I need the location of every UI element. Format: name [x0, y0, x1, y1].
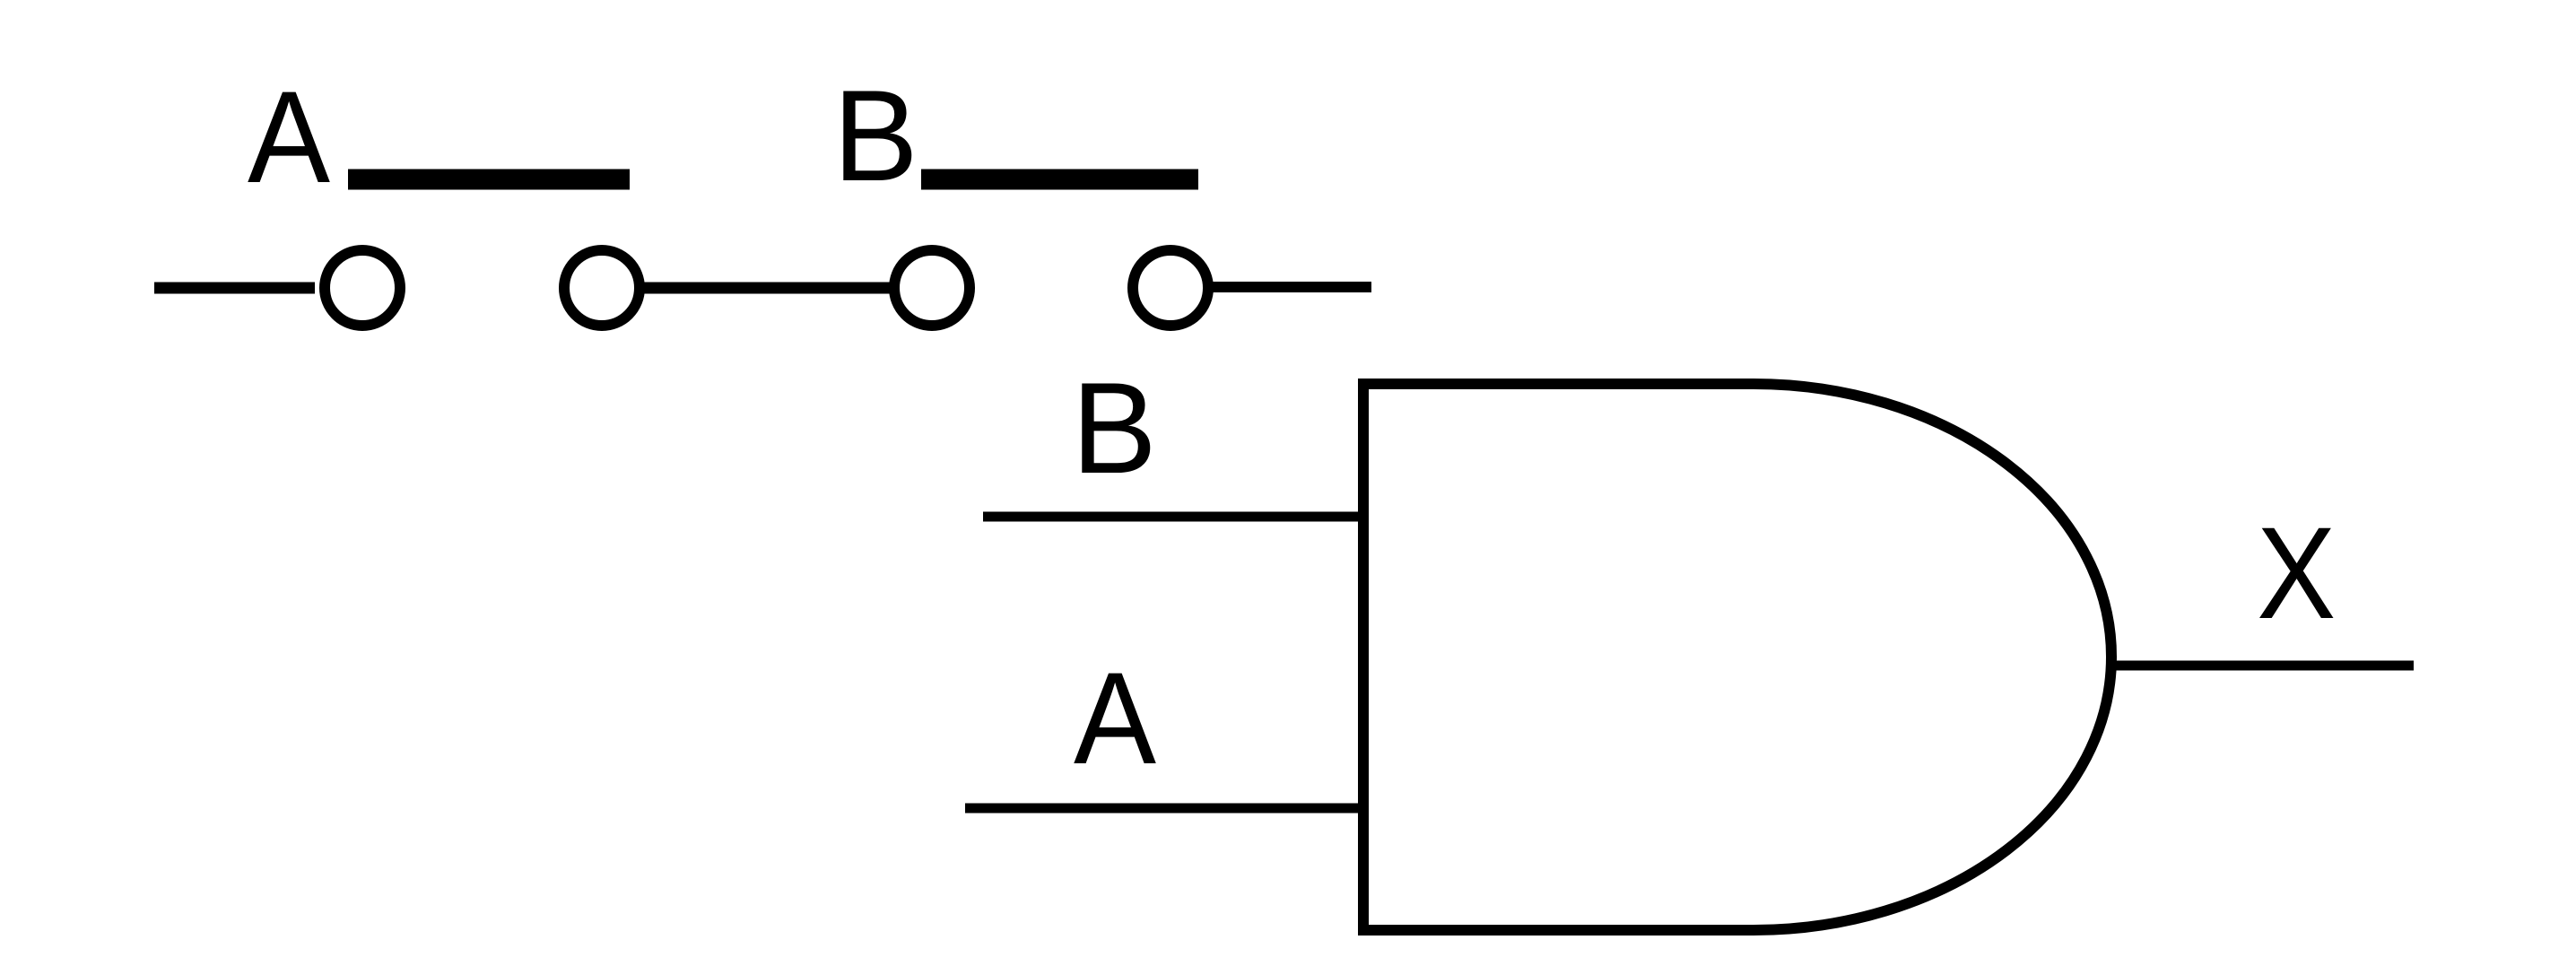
svg-text:A: A [1074, 646, 1156, 792]
switch A left contact [325, 250, 400, 326]
svg-text:A: A [248, 65, 330, 211]
wire: gate output X [2111, 661, 2414, 671]
wire: right stub after switch B [1212, 282, 1371, 292]
wire: gate input A [965, 804, 1363, 814]
switch A button bar [348, 170, 630, 190]
switch B left contact [894, 250, 970, 326]
wire: gate input B [983, 512, 1363, 522]
svg-text:B: B [1072, 356, 1157, 500]
svg-text:X: X [2257, 500, 2336, 646]
AND gate U1 [1363, 384, 2111, 930]
wire: left lead into switch A [154, 283, 315, 294]
wire: between switch A and switch B [641, 283, 891, 294]
switch B button bar [921, 170, 1198, 190]
switch A right contact [564, 250, 640, 326]
switch B right contact [1133, 250, 1208, 326]
svg-text:B: B [833, 64, 918, 208]
